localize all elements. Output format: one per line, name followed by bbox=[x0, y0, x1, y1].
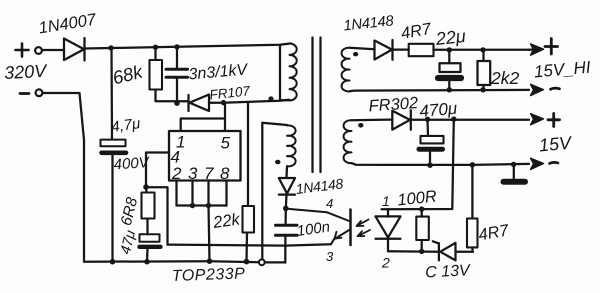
node ground D bbox=[244, 259, 250, 265]
minus 15V_HI bbox=[551, 88, 560, 89]
svg-text:1N4007: 1N4007 bbox=[37, 11, 98, 38]
resistor 22k bbox=[243, 103, 255, 262]
resistor 100R bbox=[416, 209, 429, 251]
wire input plus to D1 bbox=[42, 49, 64, 51]
wire bias return bbox=[262, 123, 287, 259]
node 100R bottom bbox=[419, 249, 424, 254]
node control junction bbox=[143, 184, 149, 190]
node sec1 phase dot bbox=[353, 52, 358, 56]
resistor 68k bbox=[150, 47, 189, 101]
node bus B bbox=[206, 203, 211, 208]
node bias rectified bbox=[283, 206, 289, 212]
wire feedback bottom bbox=[388, 250, 439, 253]
node bias phase dot bbox=[275, 160, 280, 165]
svg-text:22k: 22k bbox=[211, 210, 242, 232]
node out2 C bbox=[427, 163, 432, 168]
optocoupler phototransistor bbox=[286, 209, 351, 245]
capacitor 470u bbox=[419, 119, 444, 165]
node ground stub bbox=[511, 162, 516, 167]
wire pin5 drop bbox=[224, 103, 226, 131]
node top rail B bbox=[153, 45, 158, 50]
svg-text:FR107: FR107 bbox=[209, 83, 251, 102]
svg-text:FR302: FR302 bbox=[368, 94, 419, 115]
plus 15V_HI bbox=[545, 39, 558, 55]
svg-text:100n: 100n bbox=[296, 218, 331, 239]
capacitor 100n bbox=[276, 208, 298, 262]
svg-text:5: 5 bbox=[221, 134, 231, 153]
svg-text:68k: 68k bbox=[110, 60, 146, 88]
resistor 6R8 bbox=[142, 187, 155, 234]
node ground B bbox=[144, 259, 150, 265]
svg-text:3n3/1kV: 3n3/1kV bbox=[188, 61, 249, 83]
wire sec2 top bbox=[352, 118, 393, 121]
svg-text:TOP233P: TOP233P bbox=[172, 265, 246, 285]
wire source pins bus bbox=[177, 181, 227, 206]
node drain A bbox=[221, 100, 226, 105]
capacitor 22u bbox=[438, 50, 461, 90]
node top rail A bbox=[108, 45, 113, 50]
arrow -15V_HI bbox=[531, 84, 544, 95]
diode D1 1N4007 bbox=[64, 38, 85, 61]
svg-text:3: 3 bbox=[326, 249, 334, 264]
wire input minus down bbox=[42, 93, 84, 262]
node out2 A bbox=[425, 117, 430, 122]
svg-text:8: 8 bbox=[220, 164, 230, 183]
diode FR107 bbox=[189, 95, 224, 112]
node out1 D bbox=[480, 87, 485, 92]
capacitor 47u bbox=[140, 234, 161, 261]
svg-text:C 13V: C 13V bbox=[425, 262, 472, 281]
svg-text:4R7: 4R7 bbox=[400, 20, 434, 43]
wire minus 15V_HI rail bbox=[350, 90, 530, 91]
node primary phase dot bbox=[268, 96, 273, 100]
node clamp bottom bbox=[174, 101, 179, 106]
node bus A bbox=[190, 203, 195, 208]
svg-text:6R8: 6R8 bbox=[118, 195, 141, 227]
node ground C bbox=[207, 258, 213, 264]
resistor R 4R7 out bbox=[409, 44, 529, 56]
wire pin1 hook bbox=[181, 119, 225, 132]
node out1 A bbox=[447, 47, 452, 52]
node ground A bbox=[110, 259, 116, 265]
node out1 C bbox=[447, 87, 452, 92]
terminal minus input bbox=[20, 89, 42, 96]
svg-text:4: 4 bbox=[326, 196, 333, 211]
wire source to ground rail bbox=[209, 206, 210, 262]
node sec2 phase dot bbox=[358, 123, 363, 128]
svg-text:100R: 100R bbox=[397, 187, 438, 209]
led optocoupler bbox=[376, 209, 401, 251]
diode D3 1N4148 out bbox=[375, 40, 409, 60]
node out2 D bbox=[470, 162, 475, 167]
node out2 B bbox=[451, 116, 456, 121]
node top rail C bbox=[174, 44, 179, 49]
wire bottom ground rail bbox=[84, 260, 259, 263]
capacitor Cin 4,7u 400V bbox=[101, 48, 127, 262]
resistor 2k2 bbox=[478, 50, 491, 90]
diode D4 FR302 bbox=[392, 110, 529, 130]
zener C13V bbox=[433, 241, 473, 260]
plus 15V bbox=[548, 114, 560, 127]
arrow -15V bbox=[531, 158, 544, 169]
wire ground rail right bbox=[265, 261, 285, 263]
wire drain node bbox=[223, 100, 289, 103]
wire feedback from +15V bbox=[382, 119, 454, 209]
ic U1 TOP233P bbox=[169, 131, 241, 181]
wire control pin4 bbox=[146, 153, 331, 246]
arrow +15V_HI bbox=[529, 44, 544, 55]
diode D2 1N4148 bias bbox=[279, 166, 295, 208]
light arrows bbox=[357, 220, 371, 237]
node connector circle ground rail bbox=[259, 259, 265, 265]
svg-text:15V_HI: 15V_HI bbox=[533, 58, 591, 82]
svg-text:4,7μ: 4,7μ bbox=[110, 115, 141, 136]
transformer bias winding bbox=[287, 125, 296, 166]
wire minus 15V rail bbox=[352, 163, 530, 165]
node out1 B bbox=[480, 47, 485, 52]
svg-text:22μ: 22μ bbox=[434, 26, 467, 49]
svg-text:1: 1 bbox=[382, 193, 390, 209]
svg-text:1N4148: 1N4148 bbox=[343, 13, 395, 34]
svg-text:15V: 15V bbox=[538, 133, 574, 156]
resistor 4R7 feedback bbox=[467, 165, 478, 252]
svg-text:47μ: 47μ bbox=[118, 229, 139, 256]
svg-text:4R7: 4R7 bbox=[477, 221, 511, 244]
svg-text:320V: 320V bbox=[4, 61, 49, 83]
svg-text:2: 2 bbox=[381, 255, 390, 271]
terminal plus input bbox=[16, 44, 42, 57]
wire sec1 top bbox=[350, 48, 375, 50]
ground symbol bbox=[504, 165, 526, 182]
arrow +15V bbox=[531, 114, 544, 125]
transformer secondary winding 2 bbox=[344, 120, 352, 163]
capacitor 3n3 bbox=[166, 47, 188, 103]
transformer primary winding bbox=[280, 44, 297, 101]
transformer secondary winding 1 bbox=[342, 48, 350, 92]
node 100R top bbox=[419, 206, 424, 211]
svg-text:1N4148: 1N4148 bbox=[295, 175, 344, 197]
transformer core bbox=[313, 38, 321, 173]
svg-text:2k2: 2k2 bbox=[490, 68, 519, 88]
svg-text:470μ: 470μ bbox=[419, 99, 459, 121]
wire top rail bbox=[85, 43, 291, 48]
minus 15V bbox=[550, 162, 559, 163]
